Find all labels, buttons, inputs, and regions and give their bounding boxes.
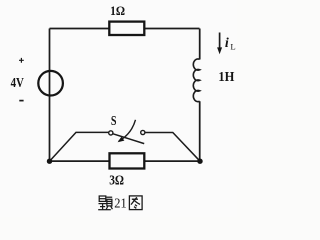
svg-text:21: 21 xyxy=(114,196,126,211)
svg-text:i: i xyxy=(225,36,229,51)
svg-text:L: L xyxy=(230,41,235,51)
svg-text:3Ω: 3Ω xyxy=(109,172,124,187)
svg-text:S: S xyxy=(111,113,117,128)
svg-text:1H: 1H xyxy=(218,69,234,84)
svg-text:1Ω: 1Ω xyxy=(110,4,125,18)
svg-text:4V: 4V xyxy=(11,75,24,90)
